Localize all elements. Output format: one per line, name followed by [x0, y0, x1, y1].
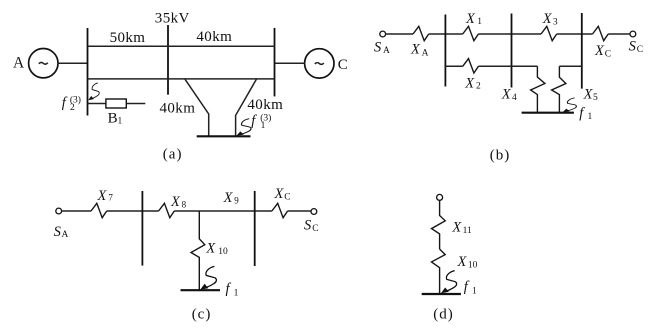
svg-text:X: X — [205, 240, 216, 256]
reactance X8 — [159, 203, 175, 217]
svg-text:11: 11 — [463, 226, 472, 236]
top line 50km+40km — [88, 45, 275, 47]
fault f1 arrow — [236, 119, 251, 136]
svg-text:C: C — [605, 50, 611, 60]
svg-text:C: C — [284, 192, 290, 202]
svg-text:(b): (b) — [490, 147, 511, 163]
svg-text:X: X — [410, 42, 421, 58]
bottom fault bus (d) — [422, 293, 461, 295]
svg-text:1: 1 — [472, 287, 477, 297]
svg-text:(a): (a) — [163, 147, 183, 163]
svg-text:(d): (d) — [433, 306, 454, 322]
stub right bus to X5 — [559, 65, 581, 67]
reactance X10 vertical (d) — [432, 249, 446, 294]
bus A (left) — [87, 28, 89, 116]
svg-text:X: X — [170, 194, 181, 210]
left slant line to fault bus — [185, 79, 209, 136]
terminal SC — [630, 31, 636, 37]
svg-text:(3): (3) — [260, 112, 271, 123]
reactance XA — [413, 26, 429, 40]
svg-text:A: A — [62, 230, 69, 240]
svg-text:X: X — [451, 219, 462, 235]
terminal SC (c) — [311, 209, 317, 215]
svg-text:10: 10 — [218, 247, 228, 257]
generator C — [305, 49, 334, 78]
bottom fault bus — [197, 135, 251, 137]
reactance X2 — [463, 59, 479, 73]
svg-text:2: 2 — [476, 82, 481, 92]
svg-text:S: S — [304, 218, 312, 234]
bottom fault bus (b) — [522, 112, 574, 114]
svg-text:X: X — [501, 86, 512, 102]
svg-text:3: 3 — [553, 18, 558, 28]
svg-text:X: X — [457, 254, 468, 270]
svg-text:(3): (3) — [70, 94, 81, 105]
generator A — [29, 49, 58, 78]
wire gen A to left bus — [58, 62, 88, 64]
reactance XC (c) — [272, 203, 288, 217]
svg-text:5: 5 — [593, 93, 598, 103]
bus middle (b) — [511, 14, 513, 88]
reactance X1 — [463, 26, 479, 40]
svg-text:A: A — [422, 48, 429, 58]
bus 1 (c) — [141, 191, 143, 266]
svg-text:10: 10 — [468, 261, 478, 271]
right slant line to fault bus — [236, 79, 257, 136]
top rail — [386, 33, 630, 35]
bus right (b) — [581, 13, 583, 89]
svg-text:S: S — [629, 39, 637, 55]
svg-text:X: X — [465, 11, 476, 27]
svg-text:S: S — [54, 224, 62, 240]
reactance X4 vertical branch — [531, 66, 545, 112]
reactance X11 vertical — [432, 201, 446, 250]
svg-text:8: 8 — [182, 199, 187, 209]
breaker B1 — [106, 99, 126, 108]
svg-text:C: C — [637, 45, 643, 55]
svg-text:35kV: 35kV — [155, 11, 190, 27]
svg-text:1: 1 — [118, 117, 123, 127]
svg-text:A: A — [13, 54, 25, 71]
svg-text:C: C — [312, 224, 318, 234]
bottom fault bus (c) — [181, 289, 221, 291]
svg-text:50km: 50km — [110, 30, 146, 46]
main rail (c) — [62, 210, 311, 212]
svg-text:7: 7 — [108, 192, 113, 202]
svg-text:X: X — [97, 188, 108, 204]
svg-text:40km: 40km — [196, 29, 232, 45]
reactance X3 — [541, 26, 557, 40]
terminal SA (c) — [56, 208, 62, 214]
reactance X7 — [91, 203, 107, 217]
svg-text:X: X — [583, 87, 594, 103]
bus left (b) — [444, 15, 446, 87]
svg-text:C: C — [338, 57, 348, 73]
fault f1 arrow (d) — [441, 271, 457, 294]
svg-text:X: X — [274, 186, 285, 202]
svg-text:4: 4 — [512, 93, 517, 103]
wire gen C to right bus — [275, 62, 305, 64]
svg-text:B: B — [108, 111, 118, 127]
terminal SA — [380, 31, 386, 37]
svg-text:(c): (c) — [192, 306, 212, 322]
svg-text:9: 9 — [234, 195, 239, 205]
svg-text:S: S — [374, 40, 382, 56]
reactance XC — [593, 26, 609, 40]
reactance X10 vertical branch (c) — [191, 211, 205, 290]
svg-text:A: A — [383, 46, 390, 56]
breaker branch wire — [88, 103, 146, 105]
terminal circle (d) — [437, 194, 443, 200]
svg-text:1: 1 — [234, 288, 239, 298]
reactance X5 vertical branch — [552, 66, 566, 112]
bus middle — [167, 25, 169, 95]
lower rail with X2 — [445, 65, 537, 67]
svg-text:X: X — [542, 11, 553, 27]
fault f1 arrow (c) — [200, 266, 216, 289]
svg-text:X: X — [223, 190, 234, 206]
svg-text:X: X — [594, 43, 605, 59]
svg-text:1: 1 — [588, 112, 593, 122]
bus C (right) — [274, 28, 276, 97]
second line — [88, 78, 275, 80]
fault f1 arrow (b) — [563, 98, 577, 112]
fault f2 arrow — [88, 83, 99, 100]
svg-text:40km: 40km — [160, 101, 196, 117]
bus 2 (c) — [254, 191, 256, 266]
svg-text:40km: 40km — [247, 97, 283, 113]
svg-text:X: X — [464, 76, 475, 92]
svg-text:1: 1 — [477, 17, 482, 27]
